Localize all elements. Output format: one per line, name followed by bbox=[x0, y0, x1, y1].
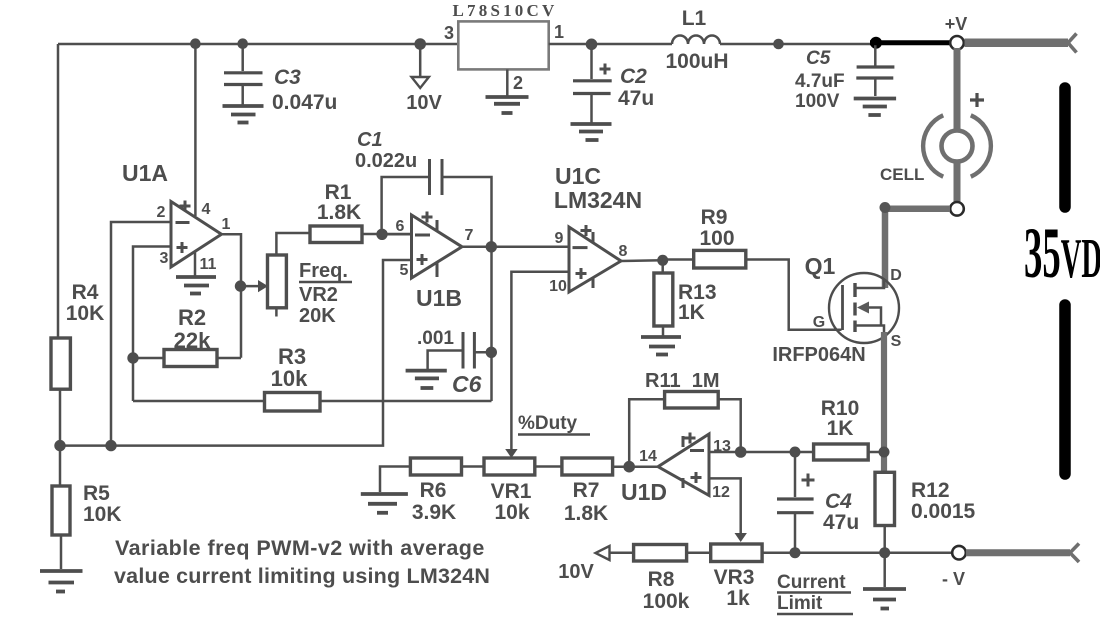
svg-text:R7: R7 bbox=[573, 479, 600, 502]
svg-text:Variable freq PWM-v2 with aver: Variable freq PWM-v2 with average bbox=[115, 536, 485, 560]
svg-text:value current limiting using L: value current limiting using LM324N bbox=[114, 564, 490, 588]
svg-text:22k: 22k bbox=[174, 328, 211, 353]
svg-text:20K: 20K bbox=[299, 305, 336, 327]
node R10 right junction bbox=[879, 447, 890, 458]
ground R13 bbox=[641, 337, 681, 355]
wire U1A pin4 bbox=[194, 44, 197, 216]
node pin7 junction bbox=[486, 241, 497, 252]
svg-text:- V: - V bbox=[942, 569, 965, 589]
svg-text:2: 2 bbox=[157, 204, 166, 221]
pin 1 label bbox=[222, 216, 231, 233]
svg-text:10K: 10K bbox=[66, 302, 105, 325]
node R2 left junction bbox=[127, 352, 138, 363]
pin 2 label bbox=[513, 73, 523, 93]
wire U1D pin12 bbox=[709, 478, 747, 542]
cell inner circle bbox=[942, 131, 973, 162]
pin 6 label bbox=[396, 218, 405, 235]
svg-text:0.047u: 0.047u bbox=[272, 91, 337, 114]
pin 14 label bbox=[639, 448, 657, 465]
svg-text:11: 11 bbox=[200, 256, 217, 273]
U1D plus minus marks bbox=[683, 433, 704, 489]
svg-text:+V: +V bbox=[945, 14, 968, 34]
node C3 junction bbox=[237, 38, 248, 49]
wire U1A pin3 bbox=[133, 247, 171, 402]
svg-text:VR1: VR1 bbox=[491, 480, 532, 503]
capacitor C5 bbox=[856, 44, 894, 96]
svg-text:7: 7 bbox=[465, 227, 474, 244]
wire +V black bbox=[870, 40, 951, 45]
resistor R2 bbox=[133, 305, 241, 367]
U1C plus minus marks bbox=[573, 225, 594, 288]
wire U1C output bbox=[621, 259, 663, 262]
svg-text:R9: R9 bbox=[701, 206, 728, 229]
potentiometer VR1 bbox=[484, 458, 562, 524]
bus bar 35VDC lower bbox=[1059, 305, 1071, 474]
ground C6 bbox=[406, 371, 447, 388]
ground R5 bbox=[40, 571, 83, 592]
transistor Q1 bbox=[772, 253, 901, 366]
label 35VDC bbox=[1024, 214, 1100, 293]
svg-text:1.8K: 1.8K bbox=[317, 201, 361, 224]
wire L1 to C5 bbox=[720, 43, 871, 46]
resistor R5 bbox=[52, 446, 122, 569]
resistor R8 bbox=[634, 545, 711, 614]
svg-text:47u: 47u bbox=[823, 511, 859, 534]
pin 11 label bbox=[200, 256, 217, 273]
label CELL bbox=[880, 165, 924, 184]
node pin13 junction bbox=[735, 446, 747, 458]
bus bar 35VDC upper bbox=[1059, 88, 1071, 207]
svg-text:9: 9 bbox=[555, 230, 564, 247]
wire left rail upper bbox=[57, 44, 60, 338]
svg-text:4: 4 bbox=[202, 201, 211, 218]
node R1 right junction bbox=[376, 229, 387, 240]
resistor R7 bbox=[562, 458, 613, 525]
caption text bbox=[114, 536, 490, 588]
svg-text:10K: 10K bbox=[83, 503, 122, 526]
inductor L1 bbox=[665, 7, 728, 73]
label C3 value bbox=[272, 66, 337, 114]
svg-text:IRFP064N: IRFP064N bbox=[772, 344, 865, 366]
svg-text:R12: R12 bbox=[911, 479, 950, 502]
svg-text:2: 2 bbox=[513, 73, 523, 93]
svg-text:1: 1 bbox=[222, 216, 231, 233]
pin 8 label bbox=[619, 243, 628, 260]
wire top rail left bbox=[58, 43, 458, 46]
power 10V arrow bottom bbox=[558, 546, 633, 583]
resistor R13 bbox=[654, 260, 717, 336]
resistor R9 bbox=[663, 206, 842, 330]
svg-text:3.9K: 3.9K bbox=[412, 501, 456, 524]
svg-text:1: 1 bbox=[554, 22, 564, 42]
svg-text:C6: C6 bbox=[452, 371, 482, 397]
svg-text:Limit: Limit bbox=[777, 593, 823, 614]
op-amp U1C bbox=[554, 163, 642, 292]
svg-text:U1A: U1A bbox=[122, 160, 168, 186]
svg-text:R11 1M: R11 1M bbox=[645, 370, 719, 392]
svg-text:Freq.: Freq. bbox=[299, 260, 348, 282]
svg-text:1k: 1k bbox=[726, 587, 750, 610]
svg-text:4.7uF: 4.7uF bbox=[795, 71, 845, 92]
svg-text:5: 5 bbox=[400, 262, 409, 279]
svg-text:U1D: U1D bbox=[621, 479, 667, 505]
node drain corner junction bbox=[880, 202, 891, 213]
wire U1B pin6 bbox=[382, 233, 412, 236]
resistor R10 bbox=[795, 397, 884, 460]
svg-text:C4: C4 bbox=[825, 490, 852, 513]
pin 1 label bbox=[554, 22, 564, 42]
pin 13 label bbox=[713, 438, 731, 455]
wire U1C pin9 bbox=[492, 246, 570, 249]
capacitor C4 bbox=[777, 452, 859, 553]
svg-text:.001: .001 bbox=[417, 328, 454, 349]
svg-text:U1B: U1B bbox=[416, 285, 462, 311]
ground C3 bbox=[223, 106, 264, 123]
label cell plus bbox=[970, 93, 984, 107]
label -V bbox=[942, 569, 965, 589]
ground C5 bbox=[854, 99, 896, 116]
label +V bbox=[945, 14, 968, 34]
wire U1B pin5 vref bbox=[60, 260, 412, 446]
node C4 bottom junction bbox=[790, 547, 801, 558]
wire U1B output bbox=[462, 246, 492, 249]
wire U1A pin2 bbox=[111, 222, 171, 446]
svg-text:R4: R4 bbox=[72, 281, 99, 304]
svg-text:R8: R8 bbox=[648, 568, 675, 591]
svg-text:L78S10CV: L78S10CV bbox=[453, 1, 558, 20]
pin 12 label bbox=[712, 484, 730, 501]
svg-text:R6: R6 bbox=[420, 479, 447, 502]
svg-text:%Duty: %Duty bbox=[518, 413, 578, 434]
wire cell to drain thick bbox=[885, 209, 950, 288]
svg-text:10V: 10V bbox=[558, 561, 594, 583]
svg-text:U1C: U1C bbox=[555, 163, 601, 189]
capacitor C6 bbox=[417, 328, 492, 397]
node R12 bottom junction bbox=[879, 547, 890, 558]
wire regulator pin2 bbox=[506, 69, 509, 95]
node C6 junction bbox=[486, 347, 497, 358]
label C2 value bbox=[618, 65, 654, 110]
svg-text:100V: 100V bbox=[795, 91, 840, 112]
resistor R12 bbox=[875, 472, 976, 552]
svg-text:Current: Current bbox=[777, 572, 846, 593]
ground R6 bbox=[361, 467, 411, 513]
svg-text:100uH: 100uH bbox=[665, 50, 728, 73]
resistor R1 bbox=[310, 181, 412, 243]
resistor R11 bbox=[629, 370, 741, 467]
pin 2 label bbox=[157, 204, 166, 221]
svg-text:10V: 10V bbox=[406, 92, 442, 114]
svg-text:12: 12 bbox=[712, 484, 730, 501]
op-amp U1D bbox=[621, 434, 709, 505]
regulator U2 L78S10CV bbox=[453, 1, 558, 69]
svg-text:10k: 10k bbox=[494, 501, 529, 524]
pin 3 label bbox=[160, 250, 169, 267]
op-amp U1A bbox=[122, 160, 222, 267]
svg-text:14: 14 bbox=[639, 448, 657, 465]
svg-text:R5: R5 bbox=[83, 482, 110, 505]
node pin8 junction bbox=[657, 255, 668, 266]
pin 4 label bbox=[202, 201, 211, 218]
svg-text:C1: C1 bbox=[357, 129, 383, 151]
ground U1A bbox=[176, 277, 216, 294]
wire +V output thick bbox=[965, 34, 1077, 53]
svg-text:47u: 47u bbox=[618, 87, 654, 110]
resistor R3 bbox=[133, 344, 492, 411]
svg-text:10: 10 bbox=[549, 278, 567, 295]
node U1A pin4 junction bbox=[190, 38, 201, 49]
ground -V bbox=[863, 553, 906, 609]
svg-text:CELL: CELL bbox=[880, 165, 924, 184]
node vref pin2 junction bbox=[105, 440, 116, 451]
svg-text:3: 3 bbox=[444, 23, 454, 43]
svg-text:C5: C5 bbox=[806, 48, 831, 69]
node cell bottom terminal bbox=[950, 202, 964, 216]
svg-text:C2: C2 bbox=[620, 65, 647, 88]
svg-text:LM324N: LM324N bbox=[554, 187, 642, 213]
wire U1D output bbox=[613, 465, 658, 468]
capacitor C3 bbox=[224, 44, 263, 105]
potentiometer VR3 bbox=[711, 544, 952, 610]
wire U1D pin13 bbox=[709, 451, 795, 454]
node R10 left junction bbox=[790, 447, 801, 458]
wire cell bottom thick bbox=[954, 162, 961, 202]
svg-text:G: G bbox=[813, 314, 825, 331]
cell holder outer arc bbox=[923, 115, 991, 176]
op-amp U1B bbox=[412, 215, 463, 311]
node +V terminal bbox=[950, 36, 964, 50]
svg-text:6: 6 bbox=[396, 218, 405, 235]
svg-text:3: 3 bbox=[160, 250, 169, 267]
pin 9 label bbox=[555, 230, 564, 247]
svg-text:1.8K: 1.8K bbox=[564, 502, 608, 525]
svg-text:100: 100 bbox=[699, 227, 734, 250]
label C5 value bbox=[795, 48, 845, 112]
node pin14 junction bbox=[623, 461, 635, 473]
node -V terminal bbox=[952, 546, 966, 560]
svg-text:C3: C3 bbox=[274, 66, 301, 89]
svg-text:Q1: Q1 bbox=[805, 253, 836, 279]
svg-text:1K: 1K bbox=[827, 417, 854, 440]
svg-text:VR2: VR2 bbox=[299, 284, 338, 306]
pin 7 label bbox=[465, 227, 474, 244]
wire cell top thick bbox=[954, 48, 961, 133]
svg-text:100k: 100k bbox=[643, 590, 690, 613]
svg-text:VR3: VR3 bbox=[714, 566, 755, 589]
wire U1C pin10 duty bbox=[505, 272, 569, 458]
resistor R6 bbox=[410, 458, 484, 524]
node 10V junction bbox=[414, 38, 426, 50]
pin 5 label bbox=[400, 262, 409, 279]
label Current Limit bbox=[777, 572, 853, 614]
node junction dot bbox=[773, 39, 784, 50]
pin 10 label bbox=[549, 278, 567, 295]
U1B plus minus marks bbox=[415, 212, 437, 278]
svg-text:D: D bbox=[890, 267, 902, 284]
svg-text:1K: 1K bbox=[678, 301, 705, 324]
ground C2 bbox=[571, 124, 612, 140]
pin 3 label bbox=[444, 23, 454, 43]
wire source thick bbox=[881, 332, 887, 472]
node C2 junction bbox=[586, 39, 598, 51]
wire wiper VR2 bbox=[241, 280, 268, 292]
power 10V arrow bbox=[406, 44, 442, 114]
svg-text:35VDC: 35VDC bbox=[1024, 214, 1100, 293]
svg-text:10k: 10k bbox=[271, 366, 308, 391]
svg-text:0.022u: 0.022u bbox=[355, 150, 417, 172]
capacitor C1 bbox=[355, 129, 492, 401]
resistor R4 bbox=[51, 281, 104, 446]
wire top rail right of regulator bbox=[549, 43, 672, 46]
ground regulator bbox=[486, 97, 529, 113]
svg-text:L1: L1 bbox=[682, 7, 707, 30]
wire U1A output bbox=[222, 234, 242, 358]
wire U1A pin11 bbox=[194, 252, 197, 277]
wire -V output thick bbox=[966, 544, 1079, 563]
capacitor C2 bbox=[573, 44, 612, 123]
node pin1 junction bbox=[235, 280, 246, 291]
potentiometer VR2 bbox=[268, 233, 353, 327]
svg-text:S: S bbox=[891, 333, 902, 350]
svg-text:8: 8 bbox=[619, 243, 628, 260]
U1A plus minus marks bbox=[176, 201, 191, 254]
node black junction bbox=[870, 37, 882, 49]
label %Duty bbox=[518, 413, 590, 435]
node vref R4 junction bbox=[54, 440, 65, 451]
svg-text:0.0015: 0.0015 bbox=[911, 500, 976, 523]
svg-text:R2: R2 bbox=[178, 305, 206, 330]
